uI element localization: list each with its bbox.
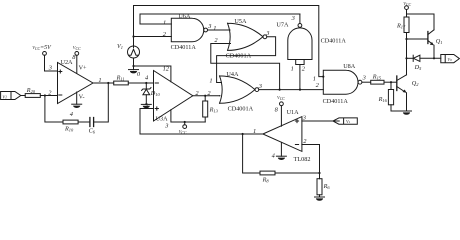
svg-text:12: 12 xyxy=(163,66,170,73)
wire U6A pin1 loop xyxy=(140,14,300,24)
wire U4A output rail xyxy=(259,89,324,91)
svg-text:D10: D10 xyxy=(150,90,161,97)
svg-text:1: 1 xyxy=(209,77,212,84)
svg-text:Q1: Q1 xyxy=(436,38,443,45)
node 0 xyxy=(137,71,147,84)
svg-text:V1: V1 xyxy=(346,119,351,124)
svg-text:V1: V1 xyxy=(117,43,123,50)
svg-text:C6: C6 xyxy=(89,128,96,135)
svg-text:R20: R20 xyxy=(26,87,36,94)
diode D5 xyxy=(407,55,441,71)
wire xyxy=(128,82,153,84)
svg-text:1: 1 xyxy=(163,20,166,27)
wire U3A pin3 xyxy=(171,110,205,122)
svg-text:R16: R16 xyxy=(378,96,388,103)
svg-text:3: 3 xyxy=(164,122,168,129)
resistor R6 xyxy=(317,173,330,197)
wire to Q2 base xyxy=(384,81,397,83)
zener diode D10 xyxy=(142,83,161,104)
wire top outer loop xyxy=(134,6,324,77)
resistor R15 xyxy=(371,73,384,84)
wire U6A pin2 xyxy=(134,36,172,38)
svg-text:D5: D5 xyxy=(414,64,422,71)
resistor R17 xyxy=(396,17,409,75)
svg-text:Q2: Q2 xyxy=(412,80,419,87)
wire U3A output xyxy=(193,95,220,97)
op-amp U1A xyxy=(253,107,310,163)
svg-text:R13: R13 xyxy=(209,107,219,114)
svg-text:U7A: U7A xyxy=(276,21,289,28)
svg-text:R17: R17 xyxy=(396,23,406,30)
svg-text:1: 1 xyxy=(213,25,216,32)
output tag V0 xyxy=(441,55,460,63)
resistor R13 xyxy=(203,95,219,122)
svg-text:V+: V+ xyxy=(79,65,87,72)
op-amp U2A xyxy=(48,59,102,103)
wire U3A pin12 to V1 ground net xyxy=(134,66,171,82)
svg-text:1: 1 xyxy=(291,65,294,72)
svg-text:R11: R11 xyxy=(116,74,125,81)
source V1 xyxy=(117,6,140,70)
resistor R20 xyxy=(25,87,40,97)
nand U8A xyxy=(313,63,366,105)
ground zener xyxy=(141,104,151,108)
nand U7A vertical xyxy=(276,14,346,90)
power terminal Vcc U1A pin8 xyxy=(277,95,285,126)
svg-text:3: 3 xyxy=(258,83,262,90)
svg-text:TL082: TL082 xyxy=(294,156,311,163)
nand U6A xyxy=(163,13,212,51)
input tag Vi xyxy=(1,92,21,100)
wire U1A pin2 xyxy=(302,145,320,174)
feedback wire xyxy=(45,96,63,123)
wire xyxy=(94,83,109,122)
nor U4A xyxy=(209,71,262,112)
input tag V1 (U1A pin3) xyxy=(333,118,357,124)
power terminal Vcc pin 8 xyxy=(72,45,81,73)
resistor R16 xyxy=(378,82,407,111)
resistor R8 xyxy=(260,171,275,183)
ground R6 xyxy=(315,197,325,201)
wire U3A pin5 feedback xyxy=(140,109,154,135)
wire U4A pin2 from U3A xyxy=(219,95,221,97)
power terminal Vcc top right xyxy=(403,1,411,17)
power terminal Vcc U3A xyxy=(179,121,187,135)
node output junction xyxy=(107,82,109,84)
svg-text:3: 3 xyxy=(291,15,295,22)
power terminal Vcc=5V xyxy=(32,45,57,71)
svg-text:R10: R10 xyxy=(64,125,74,132)
wire U4A out to U5A in2 xyxy=(211,44,280,90)
wire U1A output feedback rail xyxy=(140,133,263,135)
svg-text:R8: R8 xyxy=(262,176,270,183)
svg-text:R15: R15 xyxy=(372,73,382,80)
wire U2A output xyxy=(93,82,114,84)
wire U1A pin3 xyxy=(302,120,339,122)
transistor Q2 xyxy=(397,58,419,111)
wire U5A out to U4A in1 xyxy=(217,37,276,83)
svg-text:V0: V0 xyxy=(447,57,452,62)
node pin2 junction xyxy=(44,94,46,96)
svg-text:3: 3 xyxy=(362,74,366,81)
svg-text:V1: V1 xyxy=(2,95,7,100)
transistor Q1 xyxy=(407,14,443,59)
resistor R11 xyxy=(114,74,129,85)
ground U2A pin4 xyxy=(70,92,82,118)
svg-text:V-: V- xyxy=(79,94,85,101)
ground V1 xyxy=(129,70,139,74)
svg-text:U1A: U1A xyxy=(287,109,300,116)
svg-text:CD4011A: CD4011A xyxy=(321,38,347,45)
svg-text:U4A: U4A xyxy=(226,71,239,78)
resistor R10 xyxy=(63,120,78,132)
svg-text:3: 3 xyxy=(207,23,211,30)
wire R8 branch xyxy=(243,134,260,173)
svg-text:U5A: U5A xyxy=(234,18,247,25)
wire xyxy=(78,121,90,123)
svg-text:U8A: U8A xyxy=(343,63,356,70)
wire xyxy=(40,95,57,97)
svg-text:3: 3 xyxy=(265,30,269,37)
svg-text:U2A: U2A xyxy=(61,59,74,66)
wire xyxy=(275,172,320,174)
svg-text:R6: R6 xyxy=(323,183,331,190)
ground Q2 xyxy=(402,111,412,115)
svg-text:CD4001A: CD4001A xyxy=(228,105,254,112)
wire U6A output xyxy=(208,29,231,31)
ground U1A pin4 xyxy=(276,142,286,160)
comparator U3A xyxy=(145,66,200,130)
svg-text:5: 5 xyxy=(145,102,148,109)
capacitor C6 xyxy=(89,118,96,135)
nor U5A xyxy=(213,18,269,59)
wire xyxy=(21,95,25,97)
svg-text:CD4011A: CD4011A xyxy=(323,98,349,105)
wire U8A output xyxy=(362,81,371,83)
svg-text:CD4011A: CD4011A xyxy=(171,44,197,51)
